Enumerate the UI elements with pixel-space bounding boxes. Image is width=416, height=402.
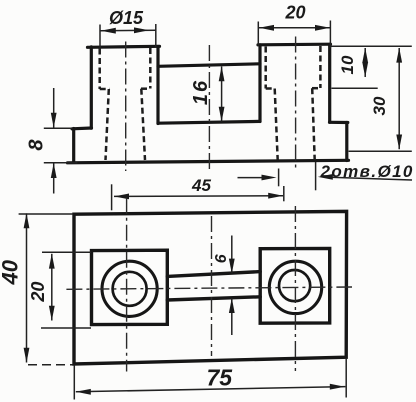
svg-text:20: 20 <box>28 282 48 303</box>
dimension 75 <box>74 358 346 400</box>
right counterbore step right <box>312 87 320 90</box>
left boss square <box>92 250 168 324</box>
left hole hidden left <box>106 89 109 160</box>
right counterbore hidden left <box>264 47 267 89</box>
left boss left edge <box>90 47 93 128</box>
web top edge <box>158 64 260 67</box>
dimension 20 (top) <box>258 21 330 49</box>
svg-text:8: 8 <box>25 139 47 151</box>
left counterbore step left <box>100 88 110 91</box>
base right edge <box>345 123 348 161</box>
right counterbore circle <box>269 261 321 313</box>
left boss right edge <box>156 47 159 124</box>
dimension Ø15 <box>100 24 156 51</box>
dimension 16 (middle) <box>221 67 223 122</box>
svg-text:6: 6 <box>213 254 230 263</box>
middle centerline <box>208 45 210 173</box>
right hole hidden left <box>275 89 278 161</box>
right counterbore step left <box>266 87 275 90</box>
base top right segment <box>330 121 348 124</box>
rib top edge <box>167 272 260 277</box>
right boss top edge <box>258 43 331 47</box>
dimension 10 (right) <box>332 48 378 88</box>
right boss square <box>260 248 330 323</box>
dimension 8 (left) <box>44 88 78 194</box>
left counterbore hidden right <box>149 48 152 89</box>
right hole hidden right <box>312 88 315 160</box>
horizontal centerline <box>66 287 352 289</box>
right counterbore hidden right <box>319 46 322 88</box>
svg-text:30: 30 <box>370 96 389 115</box>
svg-text:75: 75 <box>207 365 234 391</box>
left boss top edge <box>88 46 160 47</box>
svg-text:20: 20 <box>285 2 306 22</box>
dimension 20 (bottom view) <box>41 252 91 328</box>
dimension 6 (rib) <box>231 236 233 336</box>
left vertical centerline <box>126 198 128 372</box>
right boss left edge <box>258 45 261 122</box>
svg-text:16: 16 <box>190 79 212 105</box>
plate outline <box>74 211 347 364</box>
right boss right edge <box>328 44 331 122</box>
middle vertical centerline <box>211 216 213 356</box>
svg-text:Ø15: Ø15 <box>109 8 144 28</box>
svg-text:40: 40 <box>0 259 23 285</box>
left boss centerline <box>125 42 127 172</box>
dimension 45 <box>112 184 284 210</box>
left counterbore hidden left <box>98 49 101 90</box>
svg-text:10: 10 <box>338 55 357 74</box>
base bottom edge <box>68 160 349 163</box>
right boss centerline <box>295 37 297 171</box>
rib bottom edge <box>167 297 260 300</box>
dimension 40 <box>19 213 73 364</box>
dimension 30 (right) <box>330 46 411 151</box>
annotation 2 holes Ø10 <box>238 162 413 190</box>
base top left segment <box>72 126 92 130</box>
left counterbore step right <box>141 87 150 90</box>
base top middle segment <box>158 121 260 123</box>
left hole hidden right <box>141 89 145 160</box>
svg-text:2отв.Ø10: 2отв.Ø10 <box>320 162 414 181</box>
left hole circle <box>113 272 147 306</box>
base left edge <box>72 129 75 163</box>
right hole circle <box>279 270 310 301</box>
svg-text:45: 45 <box>191 176 211 195</box>
right vertical centerline <box>294 206 296 371</box>
left counterbore circle <box>102 261 157 316</box>
